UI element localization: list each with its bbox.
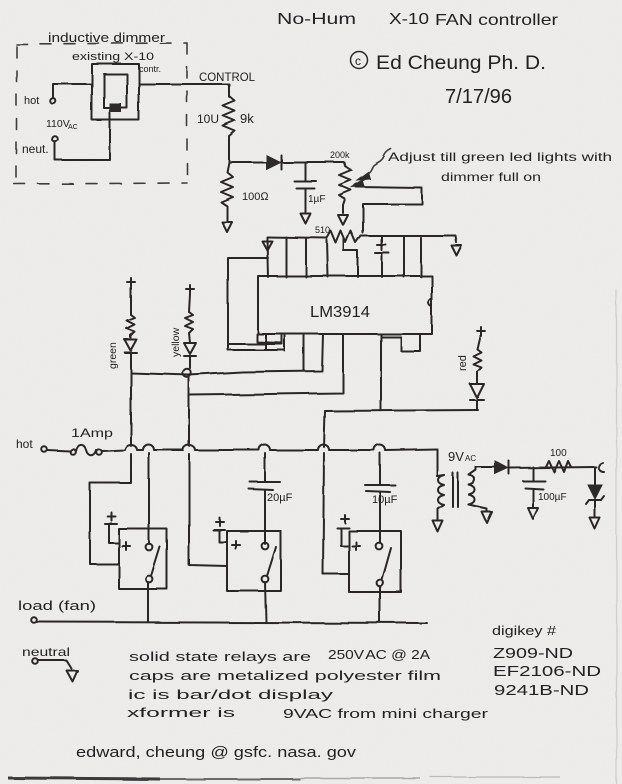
- transformer T1: [437, 467, 487, 520]
- wire pin14 stub to net: [303, 334, 305, 371]
- svg-text:250V AC @ 2A: 250V AC @ 2A: [328, 647, 430, 662]
- svg-text:9V: 9V: [448, 449, 464, 464]
- wire relay3 to load bus: [379, 586, 381, 622]
- ground arrow primary: [433, 521, 443, 532]
- wire IC left wrap loop: [228, 258, 285, 350]
- svg-text:neut.: neut.: [22, 142, 49, 156]
- wire hot to fuse: [47, 450, 70, 451]
- svg-text:110V: 110V: [46, 118, 70, 130]
- wire pin18 to loop bottom: [265, 334, 267, 350]
- title text: [277, 11, 559, 29]
- svg-text:10µF: 10µF: [372, 494, 398, 506]
- wire hot bus to transformer primary: [436, 449, 438, 476]
- svg-text:CONTROL: CONTROL: [199, 70, 255, 84]
- svg-text:1µF: 1µF: [308, 194, 325, 205]
- resistor 10U 9k: [223, 96, 235, 143]
- wire pin4 vertical: [285, 237, 287, 277]
- wire secondary to diode: [476, 466, 495, 468]
- svg-text:edward, cheung @ gsfc. nasa. g: edward, cheung @ gsfc. nasa. gov: [76, 744, 357, 761]
- fuse 1Amp: [70, 445, 102, 455]
- wire load bus: [37, 622, 427, 623]
- svg-text:9VAC from mini charger: 9VAC from mini charger: [283, 706, 489, 721]
- wire control from X-10 to control node: [139, 84, 229, 97]
- svg-text:9241B-ND: 9241B-ND: [494, 682, 589, 699]
- hot terminal: [41, 446, 47, 452]
- relay SSR3: [349, 453, 401, 592]
- ground arrow secondary: [482, 512, 492, 523]
- scanner edge artifact: [8, 777, 560, 779]
- wire hot bus: [102, 445, 437, 452]
- svg-text:7/17/96: 7/17/96: [445, 86, 512, 108]
- svg-text:100: 100: [550, 448, 567, 459]
- scanner right edge shadow: [616, 290, 618, 784]
- output hook terminal: [599, 463, 604, 472]
- wire yellow net bus crossing to relay2: [189, 395, 227, 566]
- ground arrow zener: [590, 518, 600, 529]
- wire pin16 riser: [284, 334, 286, 351]
- wire pin10 down to red net: [380, 334, 382, 410]
- wire pin9 staircase: [382, 334, 420, 351]
- diode D1: [266, 155, 281, 169]
- wire pin2 vertical: [267, 238, 268, 277]
- wire green net bus crossing to relay1: [90, 372, 131, 564]
- diode D2: [495, 461, 509, 474]
- neut terminal: [52, 136, 58, 142]
- wire DC rail: [509, 467, 596, 468]
- existing X-10 module U-dimmer: [92, 64, 139, 120]
- svg-text:100Ω: 100Ω: [242, 191, 269, 203]
- capacitor 100uF: [523, 467, 545, 507]
- svg-text:10U: 10U: [197, 112, 219, 126]
- svg-text:dimmer full on: dimmer full on: [441, 170, 541, 184]
- wire IC top rail left of 510: [267, 237, 327, 238]
- svg-text:X-10: X-10: [389, 11, 429, 28]
- potentiometer 200k: [339, 162, 351, 213]
- wire top pin vertical right b: [420, 238, 422, 277]
- wire top pin vertical right a: [403, 236, 405, 277]
- svg-text:caps are metalized polyester f: caps are metalized polyester film: [129, 668, 441, 683]
- wire red net down leg to relay3: [324, 411, 325, 447]
- svg-text:digikey #: digikey #: [492, 623, 557, 638]
- wire neut to X-10 module bottom: [55, 113, 110, 160]
- resistor 510: [327, 231, 361, 243]
- svg-text:510: 510: [315, 225, 330, 235]
- ground arrow neutral: [66, 670, 77, 681]
- svg-text:FAN controller: FAN controller: [435, 12, 559, 29]
- annotation squiggle arrow to pot: [357, 149, 391, 180]
- relay SSR1: [119, 453, 167, 589]
- wire neutral stub: [38, 660, 71, 668]
- relay SSR2: [227, 453, 281, 591]
- op-amp IC U1 LM3914 body: [258, 276, 432, 334]
- svg-text:ic is bar/dot display: ic is bar/dot display: [128, 687, 334, 702]
- svg-text:Z909-ND: Z909-ND: [493, 645, 573, 662]
- svg-text:Adjust till green led lights w: Adjust till green led lights with: [388, 150, 612, 164]
- svg-text:9k: 9k: [240, 111, 254, 126]
- inductive dimmer dashed enclosure: [14, 43, 187, 184]
- svg-text:No-Hum: No-Hum: [277, 11, 356, 28]
- pot wiper arrow: [352, 177, 368, 187]
- wire yellow junction down branch: [188, 377, 190, 395]
- ground arrow 100uF: [528, 508, 538, 519]
- svg-text:200k: 200k: [330, 150, 350, 160]
- svg-text:red: red: [457, 355, 469, 371]
- wire green-yellow net to pin13: [131, 334, 323, 375]
- load terminal: [31, 617, 37, 623]
- wire red net bus crossing to relay3: [323, 453, 349, 574]
- svg-text:LM3914: LM3914: [310, 304, 370, 321]
- wire yellow net to pin12: [189, 334, 343, 395]
- resistor 100ohm: [221, 162, 233, 221]
- svg-text:AC: AC: [68, 124, 78, 131]
- capacitor 1uF: [294, 162, 316, 212]
- wire pin7 vertical (510 left to IC): [327, 240, 328, 277]
- capacitor ref on pin top: [375, 236, 389, 277]
- svg-text:load (fan): load (fan): [18, 598, 96, 613]
- svg-text:solid state relays are: solid state relays are: [129, 649, 311, 664]
- svg-text:green: green: [107, 342, 119, 369]
- wire relay2 to load bus: [265, 582, 266, 622]
- ground arrow below pot: [338, 215, 348, 225]
- svg-text:1Amp: 1Amp: [71, 426, 113, 440]
- LED yellow chain: [183, 285, 196, 377]
- wire wiper net to 510 right end: [356, 187, 422, 233]
- svg-text:EF2106-ND: EF2106-ND: [493, 663, 601, 680]
- wire diode to pot top: [281, 161, 344, 163]
- svg-text:c: c: [355, 54, 361, 68]
- svg-text:100µF: 100µF: [538, 492, 567, 503]
- ground arrow below 1uF: [300, 213, 310, 223]
- wire pin15 to left net: [229, 334, 282, 344]
- svg-text:yellow: yellow: [170, 327, 182, 357]
- svg-text:20µF: 20µF: [267, 492, 293, 504]
- LED red chain: [470, 327, 485, 410]
- svg-text:inductive dimmer: inductive dimmer: [48, 30, 166, 45]
- svg-text:xformer is: xformer is: [127, 705, 236, 720]
- resistor 100: [546, 461, 571, 472]
- wire resistor to junction: [228, 143, 230, 162]
- copyright Ed Cheung: [351, 52, 547, 75]
- svg-text:hot: hot: [16, 437, 33, 451]
- wire hot to X-10 module: [53, 84, 92, 98]
- capacitor relay3 input: [337, 515, 349, 546]
- hot terminal (dimmer input): [50, 98, 56, 104]
- capacitor relay1 input: [105, 513, 119, 543]
- wire pin rail right of 510 to right arrow: [361, 236, 457, 243]
- wire pin17 stub: [257, 334, 282, 343]
- wire pin6 vertical: [305, 238, 307, 277]
- wire red net horizontal: [325, 410, 478, 411]
- zener diode Z1: [586, 467, 604, 517]
- svg-text:AC: AC: [465, 454, 476, 463]
- svg-text:existing X-10: existing X-10: [72, 51, 154, 63]
- capacitor relay2 input: [213, 518, 227, 542]
- svg-text:hot: hot: [24, 95, 39, 107]
- node junction at 229,162: [229, 161, 266, 163]
- ground arrow below 100ohm: [222, 222, 232, 232]
- svg-text:Ed Cheung Ph. D.: Ed Cheung Ph. D.: [376, 53, 546, 74]
- svg-text:neutral: neutral: [22, 645, 70, 659]
- V- arrow on pin rail: [262, 241, 272, 250]
- wire pin8 stub under 510 right: [344, 239, 358, 277]
- LED green chain: [125, 278, 137, 372]
- ground arrow top right of IC: [452, 246, 462, 256]
- wire relay1 to load bus: [147, 582, 149, 622]
- svg-text:contr.: contr.: [139, 64, 161, 74]
- neutral terminal: [32, 658, 38, 664]
